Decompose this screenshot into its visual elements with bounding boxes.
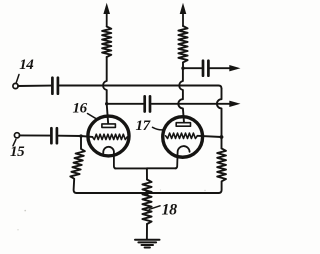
capacitor (input 14 coupling) <box>52 78 58 94</box>
wire resistor to junction at plate 17 <box>182 62 184 68</box>
svg-text:18: 18 <box>162 202 178 219</box>
tube 16 envelope <box>88 116 129 156</box>
junction plate 17 / top coupling <box>181 67 184 70</box>
resistor 18 (common cathode) <box>142 180 151 225</box>
grid resistor of tube 16 (tilted) <box>70 136 85 193</box>
wire grid-bias bus (bottom) <box>77 192 219 194</box>
terminal 14 tick <box>16 75 19 83</box>
svg-text:17: 17 <box>136 118 151 134</box>
leader 17 <box>153 127 164 130</box>
svg-text:16: 16 <box>73 100 88 116</box>
plate load resistor of tube 16 <box>102 27 111 58</box>
wire output capacitor to right arrow <box>152 103 231 105</box>
capacitor (input 15 coupling) <box>51 128 57 143</box>
B+ arrow (left) <box>106 12 108 27</box>
tube 16 grid <box>92 134 127 139</box>
terminal 15 <box>14 133 19 138</box>
faint scan specks <box>24 210 26 212</box>
terminal 14 <box>13 83 18 88</box>
tube 16 cathode <box>103 147 116 169</box>
junction plate 16 / output coupling <box>105 102 108 105</box>
wire common cathodes down to resistor 18 <box>146 168 148 179</box>
plate load resistor of tube 17 <box>178 26 187 62</box>
tube 16 plate <box>102 124 116 128</box>
wire cathode 17 to common point <box>147 167 176 169</box>
capacitor (plate 16 output coupling) <box>145 96 150 111</box>
wire plate 17 lead down, hops input-14 line and output line <box>178 68 184 123</box>
tube 17 cathode <box>175 146 190 168</box>
terminal 15 tick <box>13 139 16 145</box>
tube 17 plate <box>176 123 190 127</box>
capacitor (plate 17 output coupling, top right) <box>203 61 208 76</box>
wire resistor to plate of tube 16, hops over input-14 line <box>103 57 108 124</box>
wire resistor 18 to ground <box>146 224 148 239</box>
svg-text:15: 15 <box>10 144 25 160</box>
wire capacitor to grid 16 <box>59 136 93 137</box>
wire junction to top capacitor <box>183 67 201 69</box>
wire plate 16 to output capacitor <box>107 103 144 105</box>
wire terminal 14 to coupling capacitor <box>18 85 51 87</box>
wire corner down to grid 17 junction, hops over output line <box>217 89 222 149</box>
svg-text:14: 14 <box>19 57 34 73</box>
wire terminal 15 to capacitor <box>20 134 50 136</box>
ground <box>135 239 160 241</box>
junction grid 16 / grid resistor <box>79 134 82 137</box>
tube 17 grid <box>166 133 198 138</box>
junction grid 17 <box>220 135 224 139</box>
junction bus / resistor 18 <box>145 191 149 195</box>
wire cathode 16 to common point <box>115 167 147 169</box>
leader 16 <box>88 114 99 120</box>
output arrow (top right) <box>229 65 240 71</box>
wire top capacitor to right arrow <box>210 67 231 69</box>
grid resistor of tube 17 <box>217 148 226 193</box>
B+ arrow (right) <box>182 12 184 26</box>
wire grid 17 to right vertical <box>197 136 221 137</box>
wire capacitor to corner at right (net: grid of tube 17) <box>60 86 222 89</box>
tube 17 envelope <box>163 117 203 158</box>
leader 18 <box>149 206 160 210</box>
output arrow (lower right) <box>229 101 240 107</box>
